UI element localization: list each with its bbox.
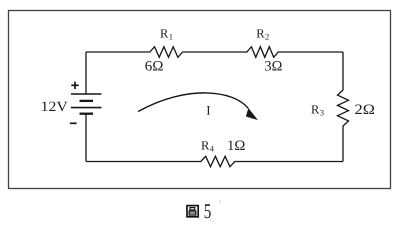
svg-text:4: 4 xyxy=(210,144,215,154)
svg-text:3: 3 xyxy=(320,108,324,118)
svg-text:6Ω: 6Ω xyxy=(145,59,164,75)
svg-text:R: R xyxy=(201,138,210,152)
svg-text:12V: 12V xyxy=(41,99,69,115)
svg-text:R: R xyxy=(311,102,320,116)
svg-text:2Ω: 2Ω xyxy=(355,102,375,118)
svg-text:I: I xyxy=(206,104,210,118)
svg-text:5: 5 xyxy=(204,199,212,223)
svg-text:R: R xyxy=(256,26,265,40)
svg-text:1: 1 xyxy=(169,32,173,42)
svg-text:1Ω: 1Ω xyxy=(227,138,245,154)
svg-text:2: 2 xyxy=(265,32,269,42)
svg-text:R: R xyxy=(160,26,169,40)
svg-text:3Ω: 3Ω xyxy=(264,59,282,75)
